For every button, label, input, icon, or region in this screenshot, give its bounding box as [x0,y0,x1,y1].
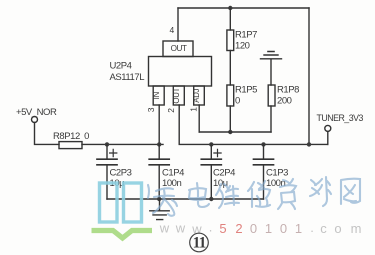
watermark chinese cursive char 3 (wei) [216,184,239,208]
node junction C2P4 [209,142,213,146]
svg-text:2: 2 [235,221,242,236]
wire top rail OUT net [178,7,309,9]
terminal +5V_NOR circle [32,117,38,123]
svg-text:.: . [310,220,314,235]
svg-text:2: 2 [166,108,176,113]
pin leg ADJ [194,86,205,105]
ground symbol (bottom) [150,199,169,220]
svg-text:+5V_NOR: +5V_NOR [16,107,57,118]
svg-text:w: w [159,221,170,236]
svg-text:1: 1 [295,221,302,236]
svg-text:0: 0 [250,221,257,236]
wire pin3 IN down [158,105,160,144]
svg-text:100n: 100n [162,178,182,189]
node junction C1P4 / IN [157,142,161,146]
ground symbol (top, inverted) [261,52,282,86]
svg-text:.: . [209,220,213,235]
wire left rail R8P12 to IN stub [82,143,163,145]
watermark chinese cursive char 7 (wang) [341,179,360,204]
wire R1P8 to ADJ line [270,106,272,132]
resistor R1P5 [227,85,234,106]
svg-text:w: w [175,221,186,236]
watermark url .com [310,220,361,236]
wire TUNER_3V3 riser [327,131,329,144]
wire +5V_NOR to R8P12 [35,123,60,145]
svg-text:U2P4: U2P4 [110,61,132,72]
svg-text:o: o [334,221,341,236]
svg-text:R1P7: R1P7 [235,30,257,41]
wire pin2 OUT down and right rail [179,105,328,144]
svg-text:OUT: OUT [172,87,181,103]
wire top rail to R1P7 [229,8,231,30]
pin leg OUT [173,86,184,105]
circled number 11 [190,233,209,252]
node junction right drop [307,142,311,146]
resistor R8P12 [59,142,82,149]
watermark chinese cursive char 4 (xiu) [248,181,270,207]
watermark url www. [159,220,213,237]
pin leg IN [153,86,164,105]
watermark chinese cursive char 1 (jia) [148,185,177,216]
wire bottom ground rail [107,198,264,200]
wire R1P5 to ADJ line [229,106,231,132]
svg-text:200: 200 [277,96,292,107]
svg-text:OUT: OUT [171,44,187,53]
svg-text:0: 0 [235,96,240,107]
watermark url 0101 [250,221,302,236]
capacitor C2P3 [106,144,108,199]
svg-text:R8P12 0: R8P12 0 [53,131,89,142]
node junction bottom C2P4 [209,197,213,201]
svg-text:ADJ: ADJ [192,88,201,102]
node junction ADJ line R1P5 [228,130,232,134]
svg-text:R1P5: R1P5 [235,85,257,96]
resistor R1P7 [227,30,234,51]
watermark chinese cursive char 6 (liao) [310,177,331,206]
watermark url 52 [219,221,242,236]
svg-text:5: 5 [219,221,226,236]
watermark logo squares [100,183,142,222]
svg-text:c: c [320,221,327,236]
watermark logo green brace [92,231,153,239]
capacitor C1P4 [158,144,160,199]
svg-text:AS1117L: AS1117L [110,72,145,83]
svg-text:R1P8: R1P8 [277,85,299,96]
capacitor C2P4 [210,144,212,199]
op-amp U2P4 regulator tab box [163,41,193,57]
svg-text:11: 11 [193,235,206,252]
node junction C2P3 [105,142,109,146]
capacitor C2P4 plus sign [214,149,221,156]
wire IC tab to top rail [177,8,179,41]
capacitor C2P3 plus sign [110,149,117,156]
wire ADJ horizontal line [199,131,271,133]
svg-text:1: 1 [189,107,199,112]
svg-text:TUNER_3V3: TUNER_3V3 [317,113,364,123]
svg-text:0: 0 [280,221,287,236]
capacitor C1P3 [263,144,265,199]
op-amp U2P4 regulator body [149,57,212,87]
svg-text:m: m [351,221,362,236]
wire right drop from top rail [308,8,310,144]
node junction top rail to R1P7 [228,6,232,10]
resistor R1P8 [268,85,275,106]
watermark chinese cursive char 5 (zi) [278,179,296,209]
svg-text:1: 1 [265,221,272,236]
node junction C1P3 [261,142,265,146]
svg-text:120: 120 [235,41,250,52]
terminal TUNER_3V3 circle [325,125,331,131]
svg-text:IN: IN [152,92,161,99]
wire pin1 ADJ down [198,105,200,132]
watermark chinese cursive char 2 (dian) [189,183,209,207]
node junction bottom C1P4 [157,197,161,201]
wire R1P7 to R1P5 [229,51,231,86]
svg-text:3: 3 [146,107,156,112]
svg-text:4: 4 [170,25,175,35]
